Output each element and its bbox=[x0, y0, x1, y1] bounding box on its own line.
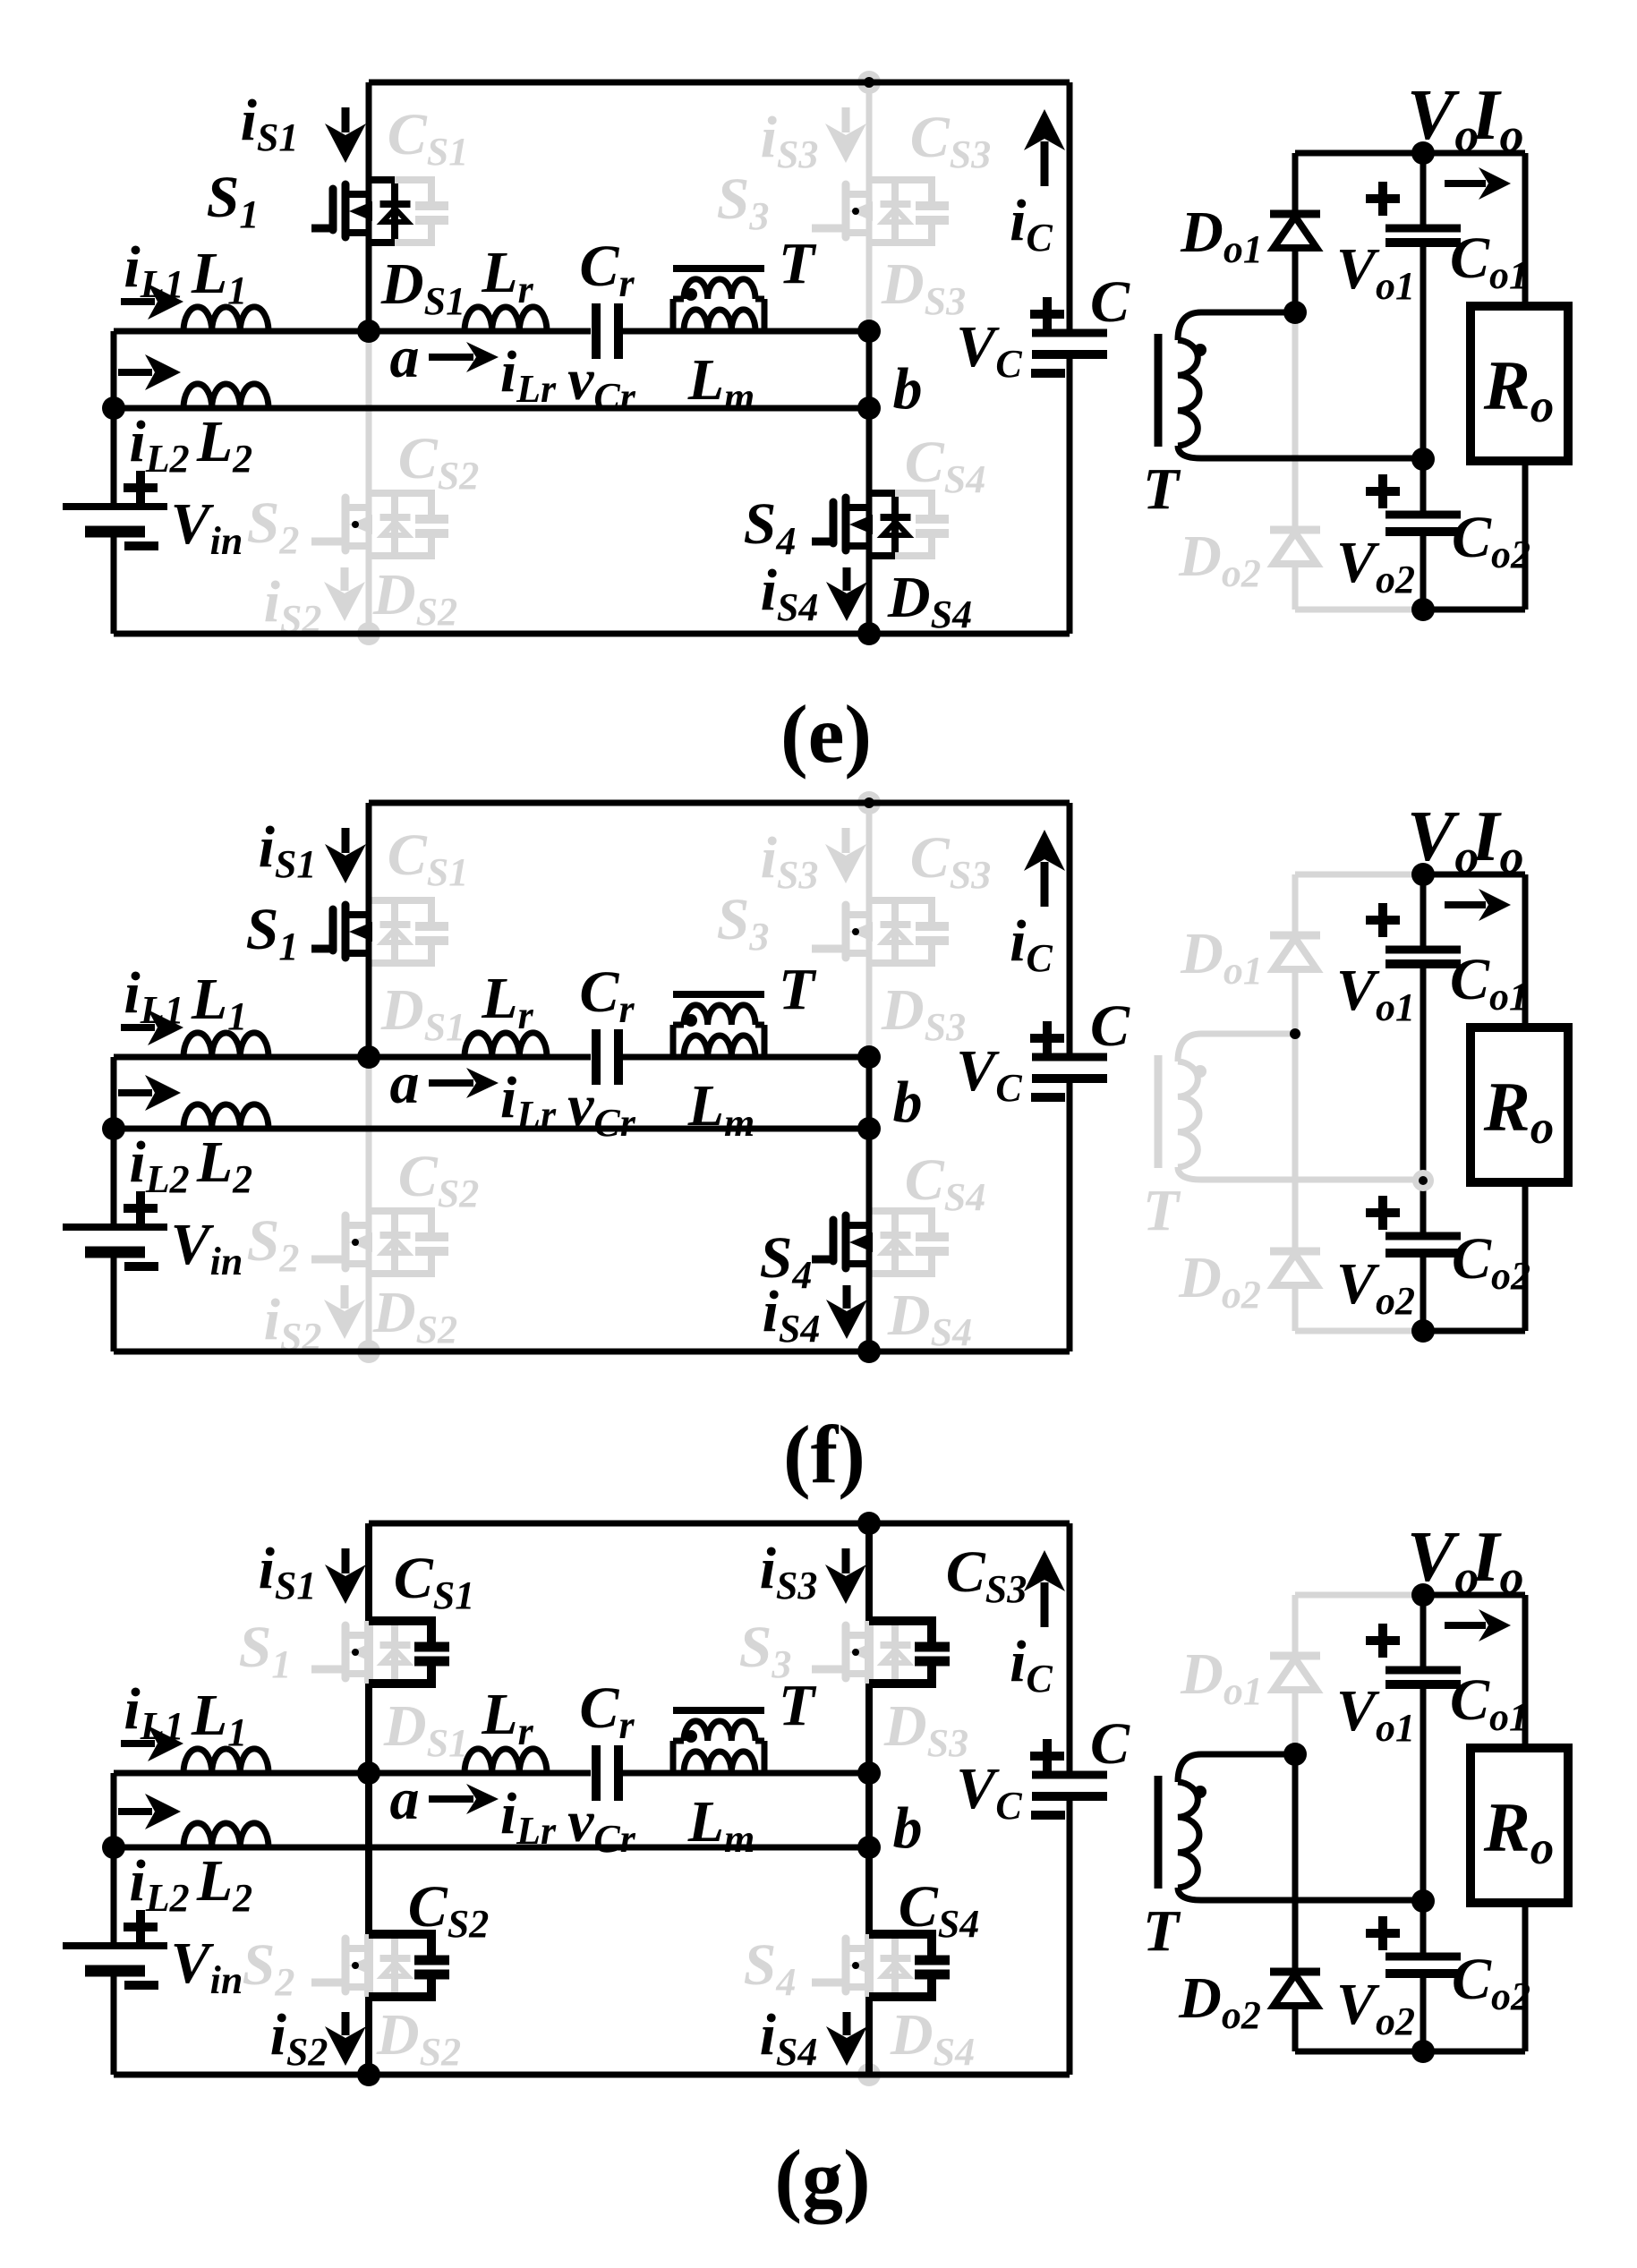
svg-text:(f): (f) bbox=[783, 1409, 865, 1500]
svg-text:a: a bbox=[390, 325, 420, 390]
svg-text:b: b bbox=[893, 1070, 923, 1135]
svg-text:(e): (e) bbox=[780, 688, 872, 780]
svg-text:C: C bbox=[1090, 993, 1130, 1059]
svg-text:T: T bbox=[1143, 1178, 1181, 1243]
svg-text:T: T bbox=[779, 957, 817, 1022]
svg-text:a: a bbox=[390, 1051, 420, 1116]
svg-text:T: T bbox=[1143, 456, 1181, 522]
svg-text:T: T bbox=[779, 231, 817, 296]
svg-text:(g): (g) bbox=[774, 2133, 870, 2224]
svg-text:T: T bbox=[1143, 1898, 1181, 1964]
svg-text:T: T bbox=[779, 1673, 817, 1738]
svg-text:b: b bbox=[893, 1795, 923, 1861]
svg-text:C: C bbox=[1090, 269, 1130, 335]
svg-text:a: a bbox=[390, 1767, 420, 1832]
svg-text:C: C bbox=[1090, 1711, 1130, 1777]
svg-text:b: b bbox=[893, 356, 923, 422]
